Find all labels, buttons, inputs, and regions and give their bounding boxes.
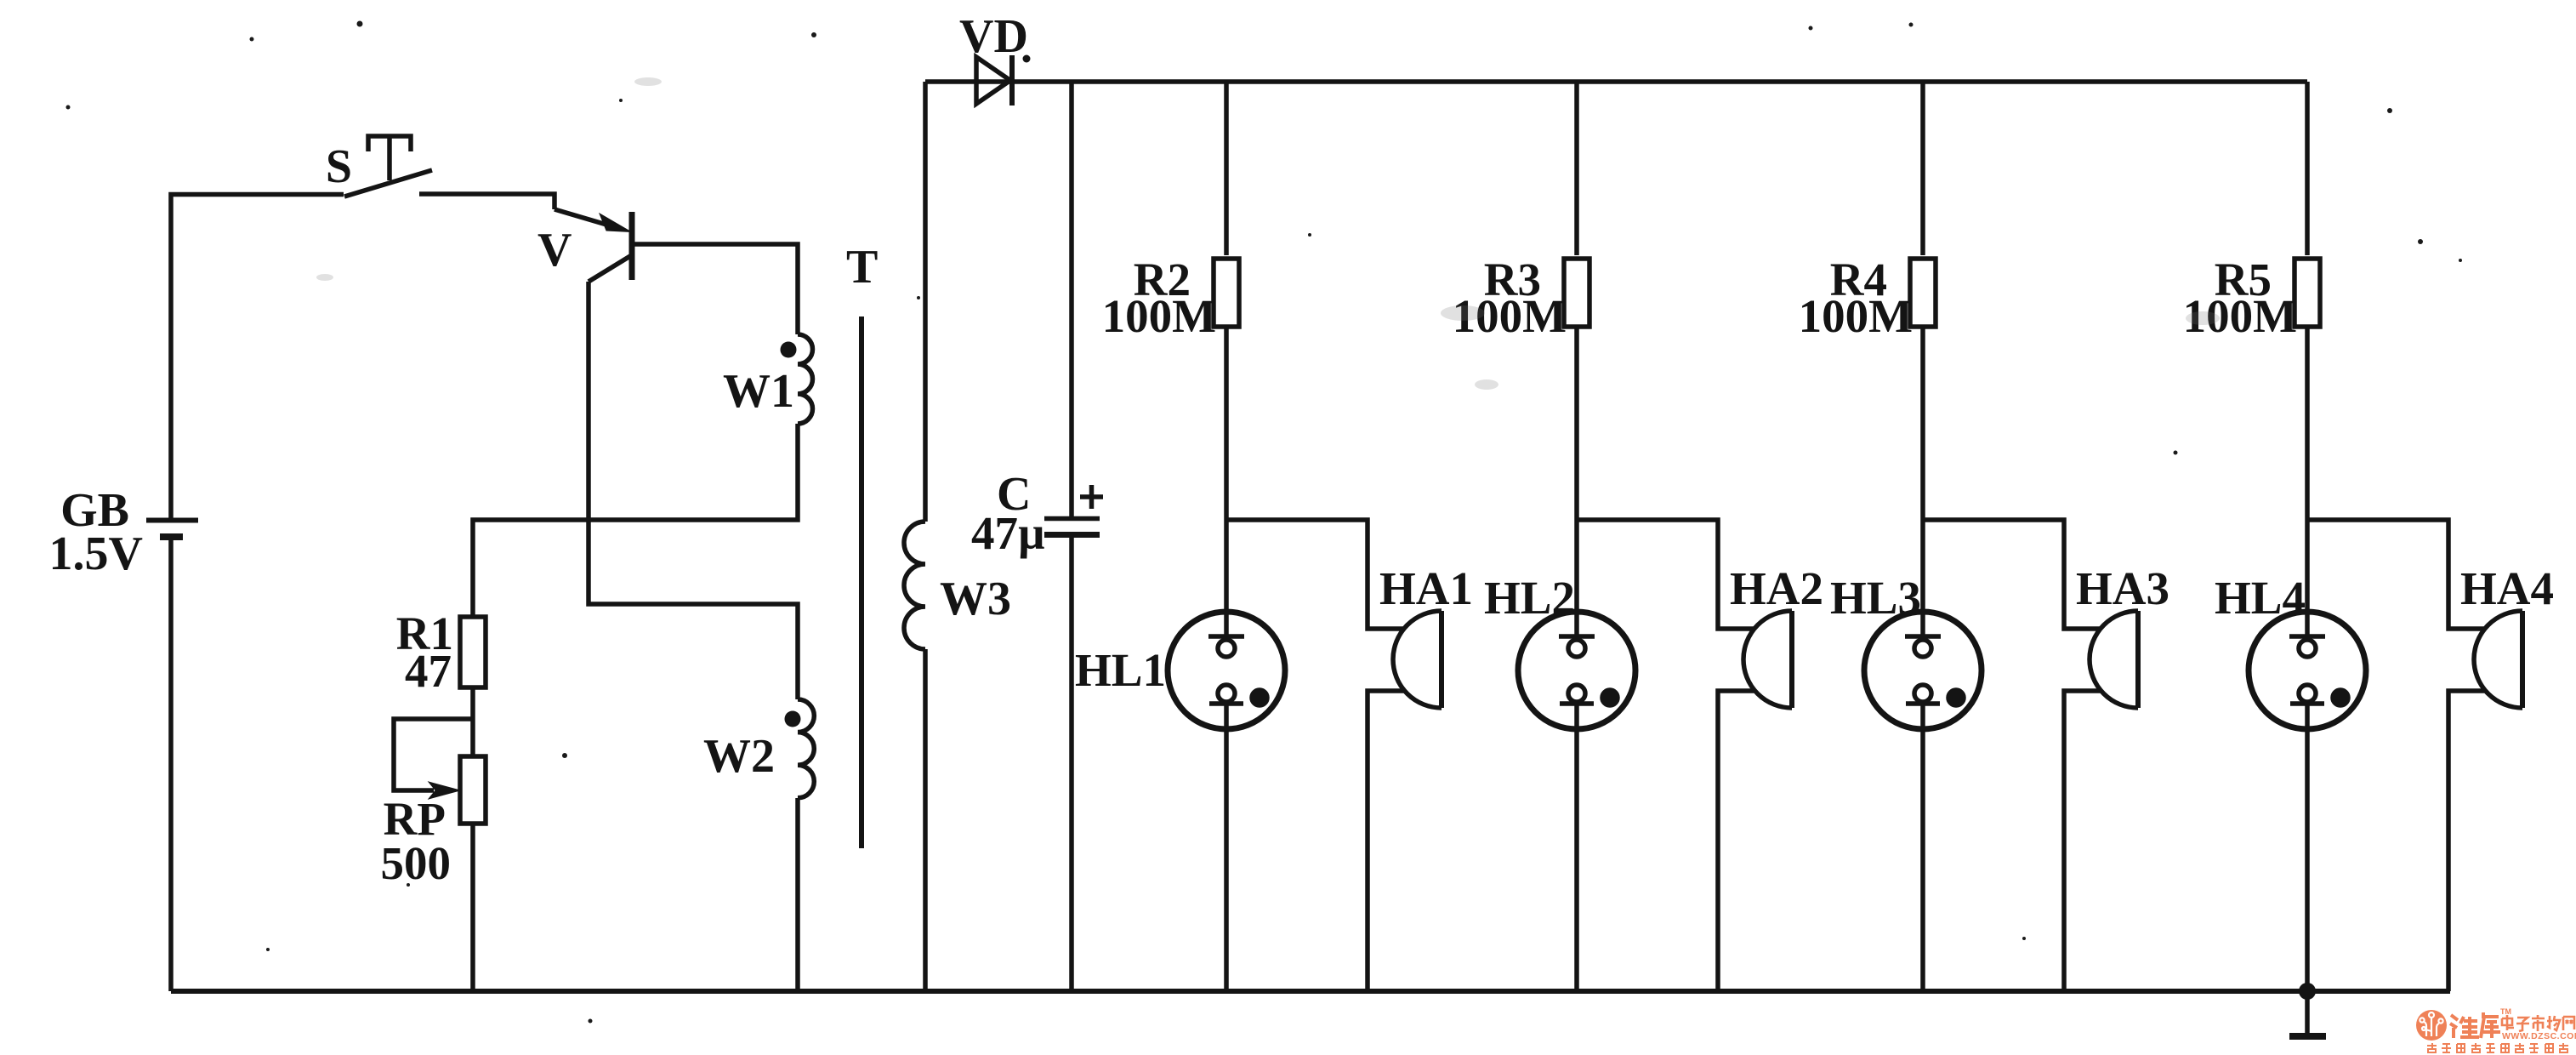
W2 polarity dot [785,711,801,727]
resistor R2 [1214,259,1239,327]
wire W3 top to top bus [923,82,928,522]
wire W2 bottom to bus [795,798,800,991]
wire branch to buzzer HA3 [1923,520,2101,629]
wire lamp HL1 to bus [1224,729,1229,991]
winding W1 [798,334,813,424]
buzzer HA2 [1743,611,1792,708]
neon lamp HL1 [1168,612,1285,729]
wire capacitor to bus [1069,538,1074,991]
svg-text:W1: W1 [723,365,794,418]
wire branch to buzzer HA2 [1577,520,1755,629]
wire R2 to lamp HL1 [1224,327,1229,612]
wire R3 to lamp HL2 [1574,327,1579,612]
svg-text:HA2: HA2 [1730,562,1823,614]
wire top bus to resistor R4 [1920,82,1925,255]
winding W2 [798,699,814,798]
svg-text:V: V [537,224,571,277]
winding W3 [904,522,925,649]
dot speck near VD [1023,55,1031,63]
wire R4 to lamp HL3 [1920,327,1925,612]
resistor R5 [2295,259,2320,327]
wire lamp HL4 to bus [2305,729,2310,991]
svg-text:TM: TM [2500,1007,2511,1016]
buzzer HA4 [2474,611,2522,708]
svg-text:HL2: HL2 [1484,572,1575,624]
buzzer HA1 [1393,611,1442,708]
wire buzzer HA2 to bus [1718,691,1755,991]
wire top bus to resistor R2 [1224,82,1229,255]
neon lamp HL2 [1518,612,1635,729]
battery GB [146,521,198,538]
svg-text:47: 47 [405,645,452,697]
wire branch to buzzer HA4 [2307,520,2486,629]
wire buzzer HA1 to bus [1368,691,1405,991]
capacitor C [1044,519,1100,535]
wire branch to buzzer HA1 [1226,520,1405,629]
top bus wire [925,79,2307,84]
svg-text:S: S [326,140,352,193]
switch S [344,136,432,197]
neon lamp HL3 [1864,612,1982,729]
svg-text:HA3: HA3 [2076,562,2169,614]
resistor R4 [1910,259,1936,327]
svg-text:HA1: HA1 [1379,562,1473,614]
wire RP bottom to bus [470,824,475,991]
watermark logo circle [2416,1010,2447,1041]
plus sign [1080,485,1103,509]
svg-text:HL3: HL3 [1830,572,1921,624]
wire top bus to capacitor [1069,82,1074,516]
diode VD [976,55,1012,105]
wire base to W1 [634,244,798,334]
svg-text:HL1: HL1 [1075,644,1166,696]
transformer core [859,316,864,848]
watermark brand text [2427,1007,2576,1052]
bottom bus wire [171,989,2450,994]
resistor R3 [1564,259,1589,327]
svg-text:500: 500 [381,837,452,889]
svg-text:100M: 100M [1102,290,1216,342]
svg-text:100M: 100M [1799,290,1913,342]
svg-text:47µ: 47µ [971,507,1045,559]
transistor V [554,209,632,282]
svg-text:1.5V: 1.5V [49,527,143,580]
RP wiper [394,719,473,799]
wire lamp HL3 to bus [1920,729,1925,991]
svg-text:HA4: HA4 [2460,562,2554,614]
svg-text:W2: W2 [703,730,775,783]
buzzer HA3 [2090,611,2138,708]
wire R5 to lamp HL4 [2305,327,2310,612]
resistor R1 [460,617,486,687]
wire battery top to switch [171,195,344,519]
junction dot [2299,983,2316,1000]
wire battery bottom to ground bus [168,540,173,991]
wire W1 bottom to R1 top [473,424,798,617]
wire switch to transistor emitter [419,194,554,209]
svg-text:T: T [846,241,878,294]
wire collector to W2 [589,282,798,699]
W1 polarity dot [781,342,797,358]
svg-text:W3: W3 [940,573,1011,625]
neon lamp HL4 [2249,612,2366,729]
svg-text:WWW.DZSC.COM: WWW.DZSC.COM [2502,1031,2576,1041]
ground [2289,991,2326,1036]
wire R1 to RP [470,687,475,756]
wire W3 bottom to bus [923,649,928,991]
svg-text:HL4: HL4 [2215,572,2306,624]
potentiometer RP [460,756,486,824]
wire lamp HL2 to bus [1574,729,1579,991]
wire top bus to resistor R3 [1574,82,1579,255]
wire top bus to resistor R5 [2305,82,2310,255]
wire buzzer HA4 to bus [2448,691,2486,991]
svg-text:VD: VD [959,10,1028,63]
wire buzzer HA3 to bus [2064,691,2101,991]
